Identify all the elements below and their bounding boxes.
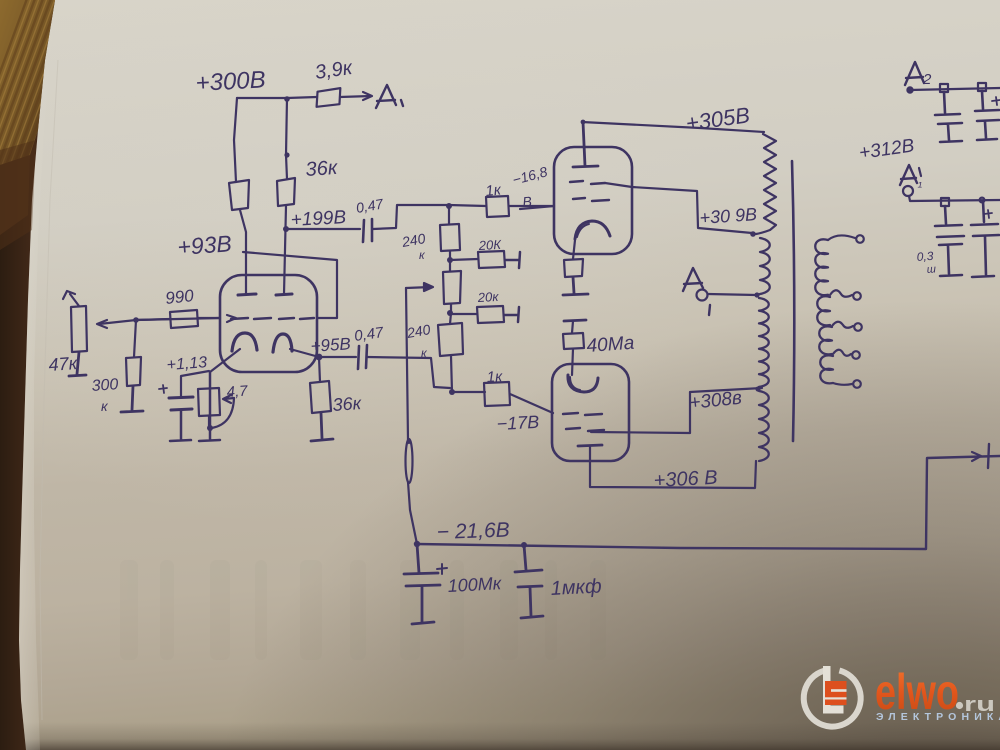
svg-text:1к: 1к [485,181,503,200]
svg-text:1к: 1к [486,368,503,386]
svg-text:100Мк: 100Мк [447,573,503,596]
svg-text:0,3: 0,3 [916,249,934,264]
svg-text:36к: 36к [332,393,363,415]
svg-text:20к: 20к [476,289,499,305]
svg-text:ш: ш [926,263,936,276]
svg-text:₁: ₁ [917,174,922,189]
svg-text:300: 300 [91,376,119,395]
svg-text:+93В: +93В [177,230,233,260]
svg-text:+300В: +300В [195,66,266,97]
svg-text:+1,13: +1,13 [166,354,208,374]
svg-text:+199В: +199В [290,207,347,231]
svg-text:36к: 36к [305,157,340,181]
svg-text:+306 В: +306 В [653,467,718,492]
svg-text:−17В: −17В [496,412,540,434]
svg-text:990: 990 [164,286,195,308]
svg-text:4,7: 4,7 [226,383,249,401]
svg-text:1мкф: 1мкф [550,575,602,600]
svg-text:+95В: +95В [310,334,351,356]
svg-text:ЭЛЕКТРОНИКА: ЭЛЕКТРОНИКА [876,711,1000,723]
svg-text:+30 9В: +30 9В [699,204,758,228]
svg-text:В: В [522,193,533,210]
svg-text:40Ма: 40Ма [586,333,635,357]
svg-text:− 21,6В: − 21,6В [436,518,510,544]
svg-text:20К: 20К [477,237,502,253]
svg-text:2: 2 [922,71,932,88]
svg-text:47к: 47к [48,353,79,375]
